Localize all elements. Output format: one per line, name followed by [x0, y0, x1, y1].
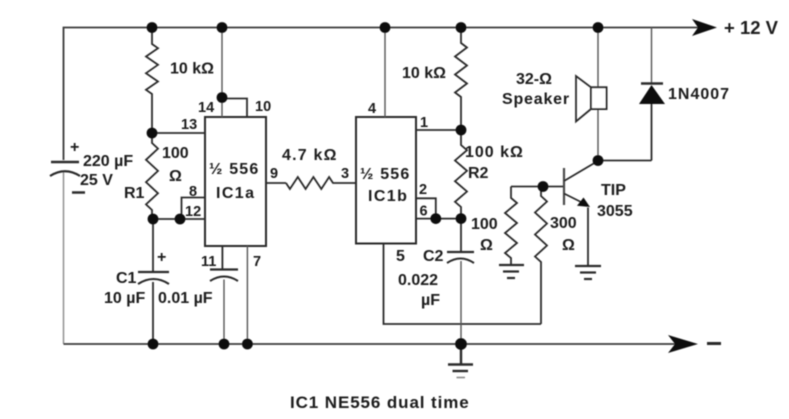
svg-text:12: 12 — [185, 204, 201, 220]
wire pin 11 — [221, 246, 223, 269]
svg-text:25 V: 25 V — [80, 172, 113, 189]
wire pin 13 — [152, 132, 205, 134]
svg-text:3: 3 — [341, 166, 349, 182]
svg-text:10 µF: 10 µF — [104, 290, 145, 307]
svg-text:14: 14 — [198, 100, 214, 116]
node R1 top — [147, 128, 158, 139]
wire pin 12 — [153, 218, 205, 220]
node bottom rail C2 gnd — [455, 338, 467, 350]
resistor 100 ohm (base) — [505, 187, 517, 265]
svg-text:Ω: Ω — [562, 237, 575, 254]
svg-text:6: 6 — [420, 204, 428, 220]
ground under emitter — [575, 266, 601, 279]
wire top +12V rail — [64, 28, 713, 161]
capacitor C1 10uF — [104, 219, 169, 344]
node pin2 junction — [430, 213, 441, 224]
svg-text:IC1a: IC1a — [216, 185, 255, 202]
svg-text:100: 100 — [162, 145, 189, 162]
wire pin 7 — [246, 246, 248, 344]
node rail dot 3 — [380, 22, 391, 33]
node pin1 R2 — [456, 125, 467, 136]
wire pin 2 — [416, 198, 436, 218]
svg-text:Ω: Ω — [169, 168, 182, 185]
wire pin 4 — [384, 28, 386, 118]
svg-text:+: + — [70, 139, 79, 156]
wire pin 5 to 300 ohm — [384, 244, 542, 325]
op IC1b box — [356, 117, 416, 244]
svg-text:10: 10 — [255, 99, 271, 115]
label minus — [707, 342, 721, 345]
svg-text:100 kΩ: 100 kΩ — [465, 144, 524, 161]
svg-text:220 µF: 220 µF — [83, 153, 133, 170]
capacitor C2 0.022uF — [398, 219, 474, 344]
resistor 10k (left) — [146, 28, 158, 134]
wire pin 14 — [221, 28, 223, 118]
wire transistor base — [511, 186, 564, 188]
wire pin 6 — [416, 218, 461, 220]
diode D1 1N4007 — [639, 28, 730, 161]
svg-text:32-Ω: 32-Ω — [516, 71, 552, 88]
svg-text:5: 5 — [396, 248, 405, 265]
node pin12 junction — [175, 214, 186, 225]
wire pin 8 — [182, 198, 206, 220]
svg-text:TIP: TIP — [601, 182, 626, 199]
svg-text:9: 9 — [270, 166, 278, 182]
node rail dot 4 — [456, 22, 467, 33]
resistor R2 100k — [455, 130, 467, 219]
svg-text:10 kΩ: 10 kΩ — [170, 61, 214, 78]
resistor 4.7k — [286, 177, 356, 189]
capacitor 0.01uF — [158, 270, 238, 345]
svg-text:2: 2 — [419, 182, 427, 198]
svg-text:4: 4 — [368, 101, 376, 117]
svg-text:4.7 kΩ: 4.7 kΩ — [282, 147, 338, 164]
wire pin 9 to 4.7k — [266, 182, 286, 184]
capacitor C 220uF 25V — [50, 139, 133, 193]
power arrow minus — [668, 335, 698, 353]
node rail dot 1 — [147, 22, 158, 33]
svg-text:0.01 µF: 0.01 µF — [158, 290, 213, 307]
node rail dot 2 — [217, 22, 228, 33]
svg-text:300: 300 — [550, 215, 577, 232]
svg-text:½ 556: ½ 556 — [209, 161, 259, 178]
svg-text:+: + — [157, 249, 166, 266]
svg-text:C1: C1 — [116, 270, 137, 287]
resistor 300 ohm — [535, 187, 547, 325]
node pin14 junction — [217, 92, 228, 103]
svg-text:1: 1 — [420, 115, 428, 131]
svg-text:½ 556: ½ 556 — [360, 166, 410, 183]
svg-text:100: 100 — [471, 216, 498, 233]
node collector junction — [593, 155, 604, 166]
resistor R1 100 ohm — [146, 133, 158, 219]
node base junction — [538, 181, 549, 192]
svg-text:3055: 3055 — [597, 203, 633, 220]
node bottom rail C1 — [148, 339, 159, 350]
svg-text:1N4007: 1N4007 — [668, 86, 730, 103]
wire collector node to diode — [598, 160, 652, 162]
transistor Q1 TIP3055 — [564, 161, 633, 267]
svg-text:+ 12 V: + 12 V — [724, 17, 779, 38]
ground under 100 ohm — [499, 265, 524, 278]
svg-text:R1: R1 — [124, 185, 145, 202]
wire bottom negative rail — [63, 171, 65, 344]
wire speaker branch — [597, 28, 599, 88]
svg-text:10 kΩ: 10 kΩ — [402, 65, 446, 82]
svg-text:R2: R2 — [468, 165, 489, 182]
node R1 bottom — [148, 214, 159, 225]
svg-text:Ω: Ω — [480, 237, 493, 254]
svg-text:IC1 NE556 dual time: IC1 NE556 dual time — [290, 393, 470, 412]
svg-text:µF: µF — [421, 292, 440, 309]
svg-text:7: 7 — [253, 254, 261, 270]
power arrow +12V — [692, 19, 717, 36]
speaker 32 ohm — [502, 71, 607, 122]
svg-text:13: 13 — [181, 117, 197, 133]
node pin6 C2 — [456, 213, 467, 224]
svg-text:C2: C2 — [423, 248, 444, 265]
svg-text:11: 11 — [201, 254, 216, 270]
svg-text:IC1b: IC1b — [368, 188, 408, 205]
svg-text:0.022: 0.022 — [398, 272, 438, 289]
resistor 10k (right) — [455, 28, 467, 131]
svg-text:Speaker: Speaker — [502, 91, 570, 108]
ground under C2 on bottom rail — [448, 344, 473, 378]
node rail dot 5 — [593, 22, 604, 33]
node bottom rail 0.01 — [219, 339, 230, 350]
node bottom rail pin7 — [242, 339, 253, 350]
op IC1a box — [205, 117, 266, 246]
wire pin 10 — [222, 99, 247, 118]
svg-text:8: 8 — [189, 184, 197, 200]
wire pin 1 — [416, 129, 461, 131]
